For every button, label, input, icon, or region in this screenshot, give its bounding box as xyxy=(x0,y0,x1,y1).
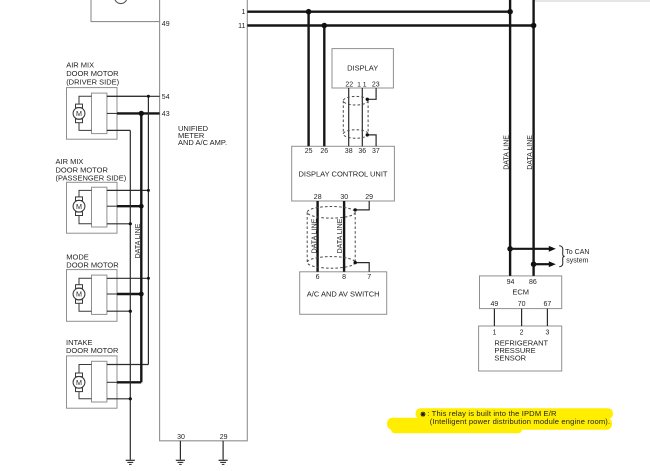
svg-text:1: 1 xyxy=(492,330,496,337)
svg-text:54: 54 xyxy=(162,94,170,101)
svg-text:DOOR MOTOR: DOOR MOTOR xyxy=(66,260,119,269)
svg-text:1: 1 xyxy=(241,9,245,16)
svg-text:70: 70 xyxy=(518,301,526,308)
svg-text:11: 11 xyxy=(238,23,245,30)
svg-text:43: 43 xyxy=(162,111,170,118)
svg-text:DISPLAY: DISPLAY xyxy=(347,63,378,72)
svg-text:67: 67 xyxy=(544,301,552,308)
svg-text:DATA LINE: DATA LINE xyxy=(503,135,510,170)
svg-text:DISPLAY CONTROL UNIT: DISPLAY CONTROL UNIT xyxy=(298,169,387,178)
svg-text:36: 36 xyxy=(358,148,366,155)
svg-text:94: 94 xyxy=(507,279,515,286)
svg-text:AND A/C AMP.: AND A/C AMP. xyxy=(178,138,227,147)
svg-text:1 1: 1 1 xyxy=(357,81,367,88)
svg-text:26: 26 xyxy=(320,148,328,155)
svg-text:M: M xyxy=(76,290,82,299)
svg-text:6: 6 xyxy=(316,274,320,281)
svg-text:M: M xyxy=(76,109,82,118)
svg-text:system: system xyxy=(566,257,588,264)
svg-text:DATA LINE: DATA LINE xyxy=(135,223,142,258)
svg-text:3: 3 xyxy=(545,330,549,337)
svg-text:7: 7 xyxy=(367,274,371,281)
svg-text:49: 49 xyxy=(491,301,499,308)
svg-text:To CAN: To CAN xyxy=(565,249,589,256)
svg-text:DATA LINE: DATA LINE xyxy=(337,218,344,253)
svg-text:30: 30 xyxy=(177,434,185,441)
svg-text:22: 22 xyxy=(345,81,353,88)
svg-text:28: 28 xyxy=(314,194,322,201)
svg-text:29: 29 xyxy=(365,194,373,201)
svg-text:25: 25 xyxy=(305,148,313,155)
svg-text:38: 38 xyxy=(345,148,353,155)
svg-text:30: 30 xyxy=(340,194,348,201)
svg-text:DATA LINE: DATA LINE xyxy=(311,218,318,253)
svg-text:(Intelligent power distributio: (Intelligent power distribution module e… xyxy=(430,417,610,426)
svg-text:86: 86 xyxy=(529,279,537,286)
svg-text:(DRIVER SIDE): (DRIVER SIDE) xyxy=(66,78,119,87)
svg-text:A/C AND AV SWITCH: A/C AND AV SWITCH xyxy=(307,289,380,298)
svg-text:29: 29 xyxy=(220,434,228,441)
svg-text:DATA LINE: DATA LINE xyxy=(527,135,534,170)
svg-text:49: 49 xyxy=(162,21,170,28)
svg-text:37: 37 xyxy=(372,148,380,155)
svg-text:23: 23 xyxy=(372,81,380,88)
svg-text:2: 2 xyxy=(520,330,524,337)
svg-text:(PASSENGER SIDE): (PASSENGER SIDE) xyxy=(56,174,127,183)
svg-text:DOOR MOTOR: DOOR MOTOR xyxy=(66,346,119,355)
svg-text:SENSOR: SENSOR xyxy=(494,353,526,362)
svg-text:ECM: ECM xyxy=(512,288,529,297)
svg-text:8: 8 xyxy=(342,274,346,281)
svg-text:M: M xyxy=(76,202,82,211)
svg-text:M: M xyxy=(76,378,82,387)
